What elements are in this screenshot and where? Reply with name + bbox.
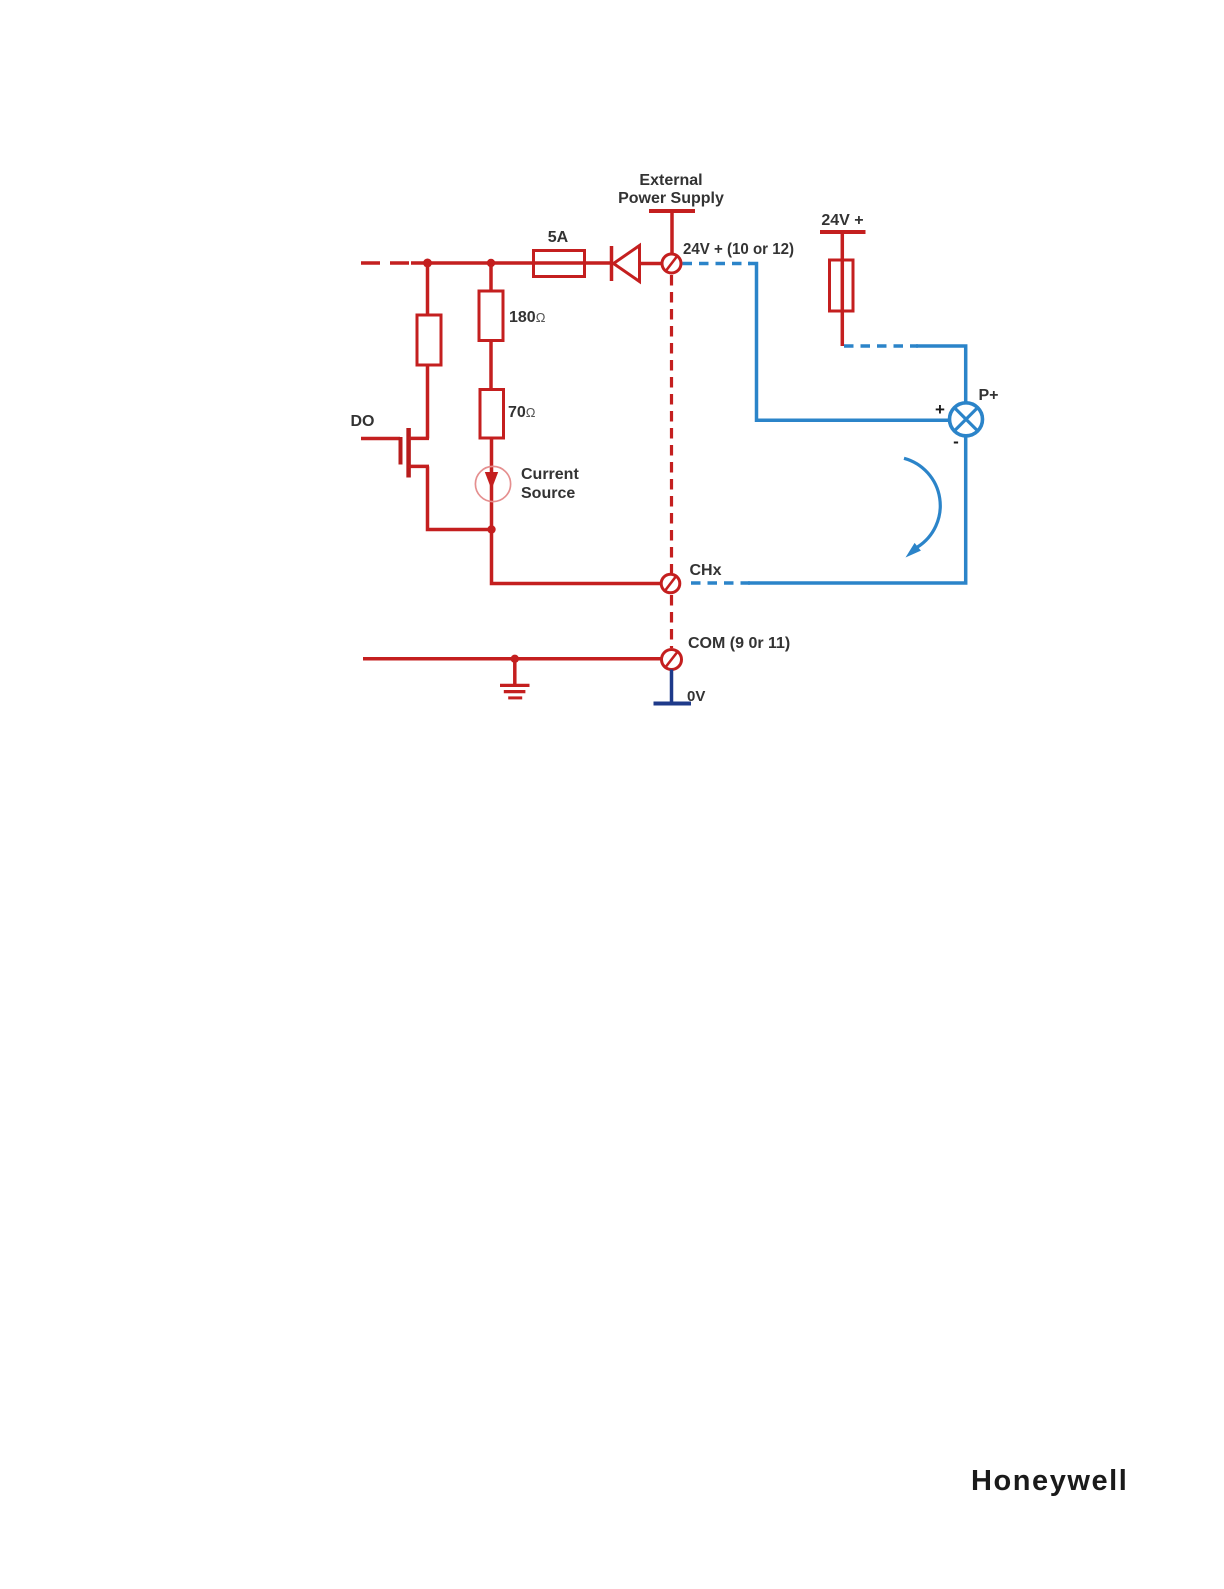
wire COM rail [363,657,662,661]
svg-text:24V + (10 or 12): 24V + (10 or 12) [683,241,794,258]
svg-text:COM (9 0r 11): COM (9 0r 11) [688,635,790,652]
wire: blue below lamp down and left [748,436,966,583]
svg-text:+: + [935,400,945,419]
resistor R1 (unlabeled left) [417,263,441,439]
drain lead [409,437,429,441]
current-direction arc arrow [904,458,940,557]
wire to CHx [492,530,662,584]
gate bar [399,437,403,465]
channel bar [406,428,411,478]
current source CS1 [475,466,579,502]
svg-text:CHx: CHx [690,562,722,579]
wire: red dashed vertical CHx to COM [670,595,673,648]
wire: blue solid corner down to lamp left [748,264,950,421]
terminal COM (screw) [662,650,682,670]
wire between 180 and 70 [489,341,493,390]
node junction dot C [487,525,495,533]
svg-text:P+: P+ [979,387,999,404]
wire 70ohm to current source to bottom [490,438,494,530]
node junction dot B [487,259,495,267]
source lead [409,465,429,469]
wire down to fuse [841,232,845,346]
ground symbol [500,659,530,698]
svg-text:70Ω: 70Ω [508,404,536,421]
node junction dot A [423,259,432,268]
svg-text:0V: 0V [687,688,705,705]
wire: blue dashed from 24V+ terminal [683,262,751,266]
node junction dot D [511,655,519,663]
svg-text:-: - [953,432,959,451]
resistor R2 180ohm [479,263,546,341]
terminal 24V+ (screw) [662,254,681,273]
transistor Q1 DO mosfet [351,413,492,530]
label External Power Supply [618,172,724,207]
wire: main top rail solid [411,261,534,265]
diode D1 [612,246,663,282]
wire: blue solid corner to lamp top [916,346,966,403]
source wire down [428,466,492,529]
resistor R3 70ohm [480,390,536,439]
gate lead [361,437,400,441]
fuse F2 (right) [830,260,854,311]
svg-text:External: External [639,172,702,189]
svg-text:Power Supply: Power Supply [618,190,724,207]
svg-text:DO: DO [351,413,375,430]
svg-text:24V +: 24V + [821,212,863,229]
0V net (navy) [654,670,692,704]
wire: main top rail dashed left stub [361,261,413,265]
wire: blue dashed into CHx [690,581,750,585]
svg-text:Current: Current [521,466,579,483]
svg-text:180Ω: 180Ω [509,309,546,326]
wire: blue dashed from right fuse [844,344,918,348]
svg-text:Source: Source [521,485,575,502]
power supply symbol (bar + stem) [649,211,695,255]
power bar 24V+ right [820,230,866,234]
fuse F1 5A [534,229,613,277]
terminal CHx (screw) [661,574,680,593]
wire: red dashed vertical 24V+ to CHx [670,275,673,573]
svg-text:Honeywell: Honeywell [971,1465,1128,1497]
lamp P+ (circle with X) [950,403,983,436]
svg-text:5A: 5A [548,229,569,246]
